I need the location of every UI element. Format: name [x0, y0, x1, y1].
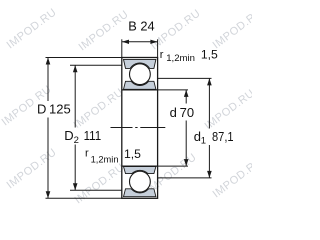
D extension lines	[46, 57, 122, 59]
svg-text:D: D	[37, 101, 46, 116]
D 125	[35, 101, 72, 118]
d dimension line	[185, 90, 187, 166]
svg-text:1: 1	[201, 136, 206, 147]
D arrows	[46, 58, 51, 65]
lower section: outer ring band	[124, 189, 156, 197]
svg-text:24: 24	[140, 18, 154, 33]
svg-text:111: 111	[84, 128, 102, 143]
D2 dimension line	[74, 65, 76, 190]
B extension lines	[121, 39, 123, 57]
d1 extension lines	[158, 77, 212, 79]
svg-text:87,1: 87,1	[212, 129, 234, 144]
svg-text:d: d	[170, 105, 177, 120]
bore line bottom (top edge of lower section)	[122, 165, 158, 167]
d1 dimension line	[208, 78, 210, 177]
svg-text:2: 2	[74, 135, 79, 146]
d1 87,1	[193, 129, 235, 146]
d arrows	[184, 90, 189, 97]
watermark tiles	[0, 6, 265, 206]
upper ball	[130, 64, 151, 85]
svg-text:B: B	[128, 18, 137, 33]
svg-text:1,2min: 1,2min	[166, 53, 195, 64]
svg-text:1,5: 1,5	[201, 47, 218, 61]
d 70	[168, 104, 196, 121]
bore line top (bottom edge of upper section)	[122, 89, 158, 91]
B dimension line	[122, 41, 158, 43]
d1 arrows	[207, 78, 212, 85]
svg-text:r: r	[85, 147, 89, 159]
dimension lines	[46, 39, 212, 198]
bearing outline rect (front view silhouette)	[122, 58, 158, 199]
D dimension line	[47, 58, 49, 199]
axis centerline	[111, 127, 166, 129]
svg-text:1,5: 1,5	[124, 147, 141, 161]
lower ball	[130, 171, 151, 192]
D2 arrows	[73, 65, 78, 72]
d extension lines	[158, 89, 188, 91]
svg-text:125: 125	[49, 101, 71, 116]
upper section: inner ring band	[124, 81, 156, 89]
lower groove rim carve	[129, 170, 152, 193]
svg-text:70: 70	[180, 105, 194, 120]
svg-text:D: D	[64, 128, 73, 143]
upper groove rim carve	[129, 63, 152, 86]
arrows	[46, 40, 212, 199]
svg-text:r: r	[160, 49, 164, 61]
D2 extension lines	[70, 64, 122, 66]
B arrows	[122, 40, 129, 44]
D2 111	[63, 128, 102, 145]
lower section: inner ring band	[124, 167, 156, 174]
upper section: outer ring band	[124, 59, 156, 68]
svg-text:1,2min: 1,2min	[91, 154, 119, 164]
